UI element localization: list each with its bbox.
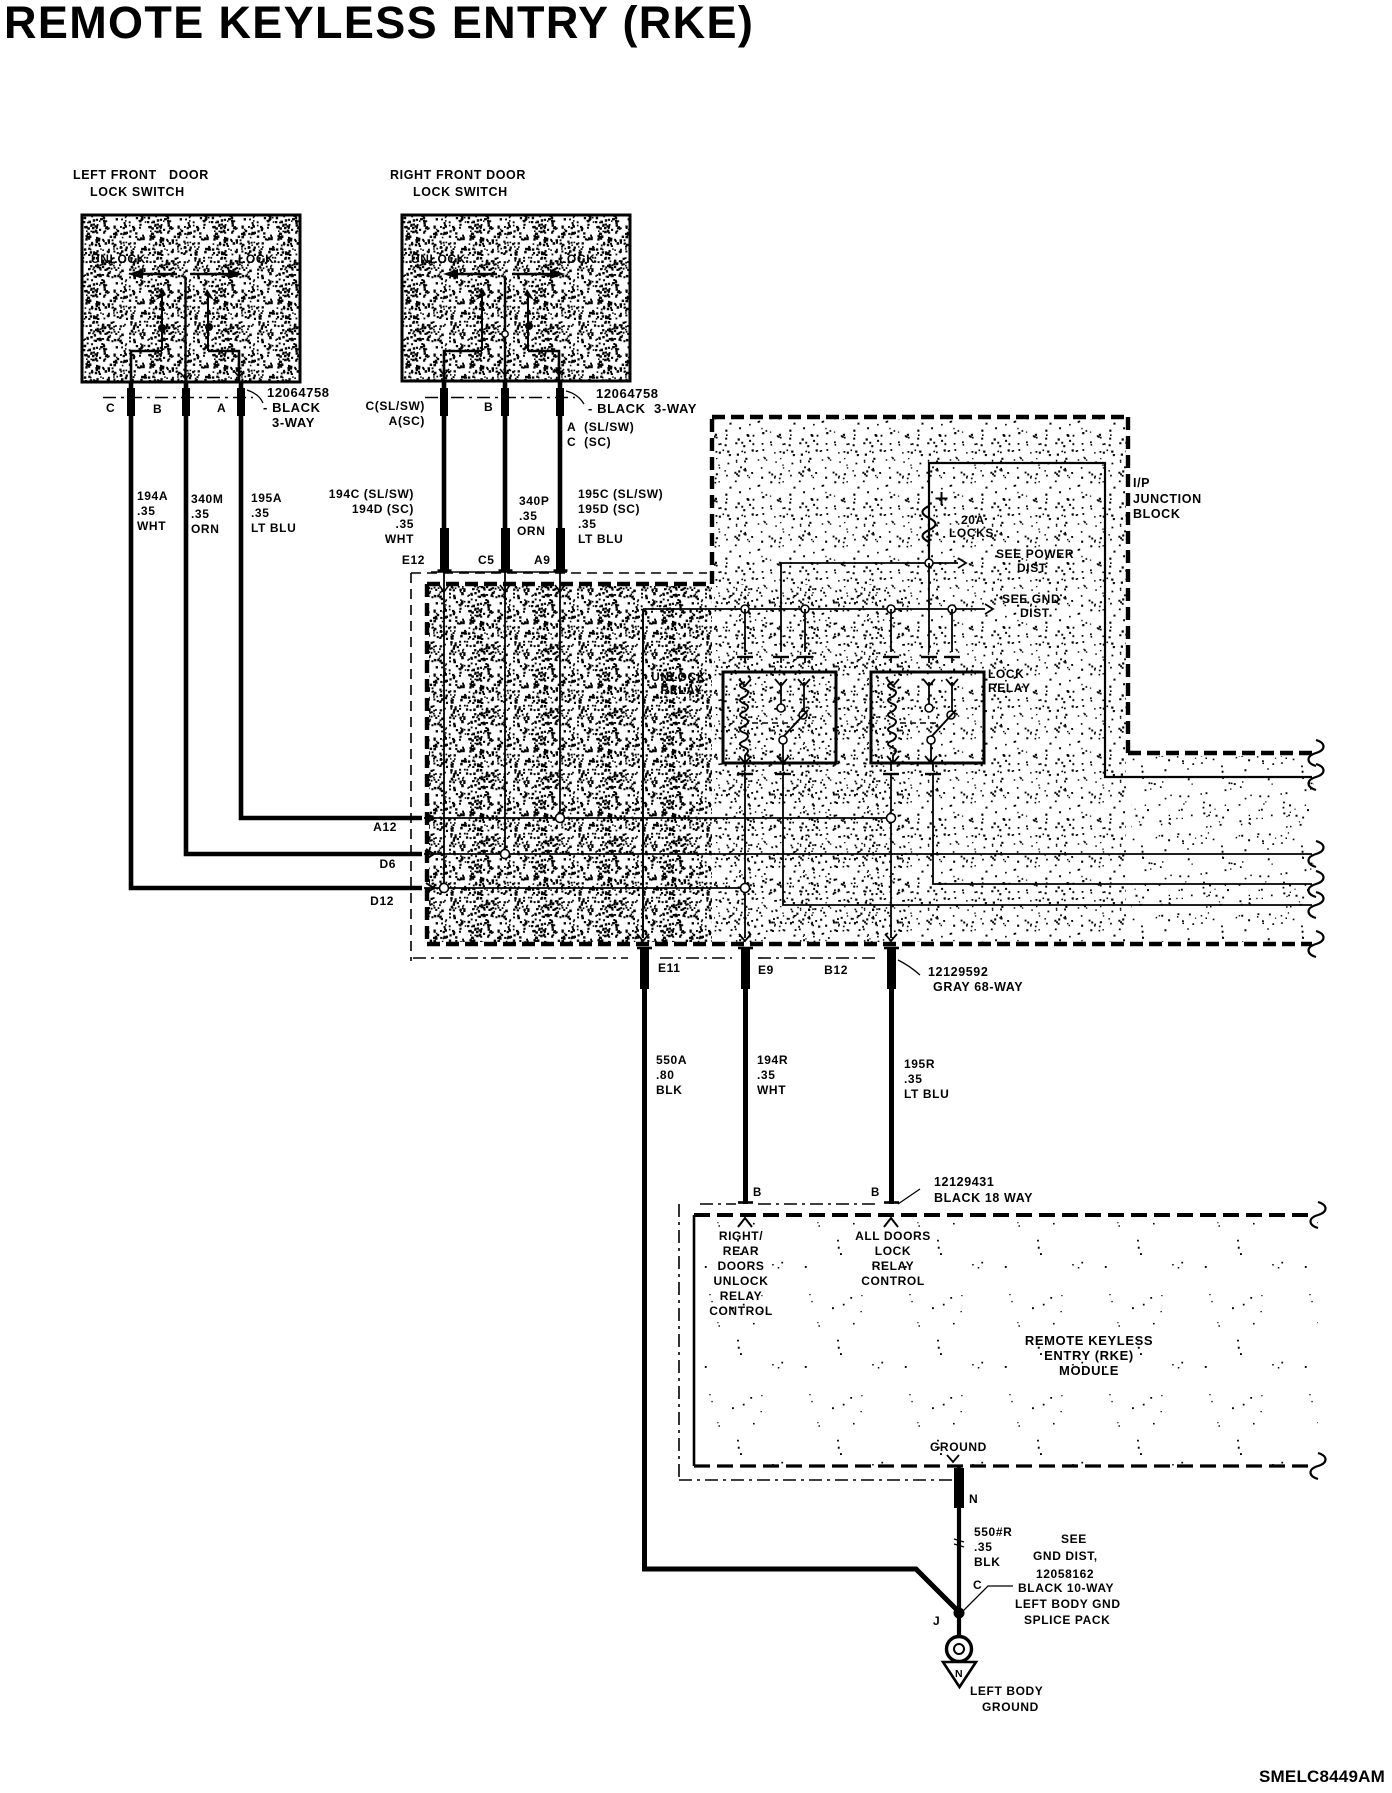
svg-text:B: B xyxy=(753,1187,762,1199)
switch arm 2 (lock contact) xyxy=(204,289,214,300)
svg-text:B: B xyxy=(484,400,493,414)
svg-text:.35: .35 xyxy=(578,517,596,531)
svg-text:- BLACK: - BLACK xyxy=(263,400,321,415)
svg-text:12064758: 12064758 xyxy=(596,386,659,401)
svg-text:20A: 20A xyxy=(961,513,985,527)
svg-text:194D (SC): 194D (SC) xyxy=(352,502,414,516)
lock direction arrow xyxy=(512,273,551,275)
switch pole B wire xyxy=(504,277,506,381)
wire to A9 xyxy=(558,381,563,530)
connector 12064758 black 3-way (left) xyxy=(103,397,253,399)
wire 550A .80 BLK xyxy=(642,947,647,1569)
I/P junction block stipple fill (upper area) xyxy=(714,419,1126,942)
wire 195R .35 LT BLU xyxy=(889,947,894,1204)
svg-text:12129592: 12129592 xyxy=(928,965,988,979)
svg-text:.35: .35 xyxy=(396,517,414,531)
svg-text:D6: D6 xyxy=(379,857,396,871)
svg-text:.35: .35 xyxy=(757,1068,775,1082)
svg-text:.35: .35 xyxy=(974,1540,992,1554)
svg-text:.35: .35 xyxy=(137,504,155,518)
lock relay K2 xyxy=(871,672,984,763)
splice junction J xyxy=(954,1608,965,1619)
svg-text:A(SC): A(SC) xyxy=(389,414,425,428)
I/P junction block outer boundary (thin dashed) xyxy=(411,572,707,574)
svg-text:E11: E11 xyxy=(658,961,681,975)
svg-text:LT BLU: LT BLU xyxy=(578,532,623,546)
svg-text:195R: 195R xyxy=(904,1057,935,1071)
svg-text:B12: B12 xyxy=(824,963,848,977)
svg-text:LT BLU: LT BLU xyxy=(904,1087,949,1101)
junction block connector face line (dash-dot bottom) xyxy=(413,957,628,959)
svg-text:BLK: BLK xyxy=(974,1555,1000,1569)
svg-text:DIST: DIST xyxy=(1017,561,1047,575)
ground wire 550#R .35 BLK xyxy=(957,1466,961,1613)
svg-text:ORN: ORN xyxy=(517,524,545,538)
net D6 internal line xyxy=(424,853,1312,855)
svg-text:ENTRY (RKE): ENTRY (RKE) xyxy=(1044,1348,1134,1363)
svg-text:UNLOCK: UNLOCK xyxy=(651,670,706,684)
wire C to D12 xyxy=(131,382,422,888)
svg-text:LOCK SWITCH: LOCK SWITCH xyxy=(90,185,185,199)
switch pole B wire xyxy=(184,277,186,382)
svg-text:MODULE: MODULE xyxy=(1059,1363,1119,1378)
svg-text:SMELC8449AM: SMELC8449AM xyxy=(1259,1767,1385,1786)
svg-text:CONTROL: CONTROL xyxy=(861,1274,925,1288)
svg-text:3-WAY: 3-WAY xyxy=(272,415,315,430)
svg-text:LOCK: LOCK xyxy=(559,252,595,266)
svg-text:LOCK SWITCH: LOCK SWITCH xyxy=(413,185,508,199)
I/P junction block heavy dashed outline xyxy=(427,582,712,586)
svg-text:E9: E9 xyxy=(758,963,774,977)
switch SW1 left front door lock switch box xyxy=(82,215,300,382)
svg-text:C: C xyxy=(106,401,115,415)
svg-text:UNLOCK: UNLOCK xyxy=(714,1274,769,1288)
switch arm 1 (unlock contact) xyxy=(156,289,166,300)
svg-text:E12: E12 xyxy=(402,553,425,567)
ground return line to E11 xyxy=(642,609,644,938)
ground line SEE GND DIST xyxy=(643,608,985,610)
svg-text:RELAY: RELAY xyxy=(660,683,703,697)
RKE module box xyxy=(693,1215,696,1466)
svg-text:BLOCK: BLOCK xyxy=(1133,507,1180,521)
unlock relay switch output line xyxy=(783,774,1312,905)
wire A to A12 xyxy=(241,382,422,818)
svg-text:GROUND: GROUND xyxy=(982,1700,1039,1714)
unlock direction arrow xyxy=(140,273,177,275)
power feed line SEE POWER DIST xyxy=(781,562,958,564)
node A9 wire xyxy=(559,570,561,814)
svg-text:CONTROL: CONTROL xyxy=(709,1304,773,1318)
svg-text:SEE GND: SEE GND xyxy=(1002,592,1060,606)
ring terminal / eyelet xyxy=(957,1613,961,1637)
net D12 internal line xyxy=(424,887,740,889)
svg-text:550A: 550A xyxy=(656,1053,687,1067)
wire 194R .35 WHT xyxy=(743,947,748,1204)
svg-text:LOCKS: LOCKS xyxy=(949,526,994,540)
svg-text:GROUND: GROUND xyxy=(930,1440,987,1454)
wire to C5 xyxy=(503,381,508,530)
svg-text:RELAY: RELAY xyxy=(988,681,1031,695)
svg-text:GRAY 68-WAY: GRAY 68-WAY xyxy=(933,980,1023,994)
wire to E12 xyxy=(442,381,447,530)
svg-text:ORN: ORN xyxy=(191,522,219,536)
svg-text:SPLICE PACK: SPLICE PACK xyxy=(1024,1613,1110,1627)
svg-text:DOORS: DOORS xyxy=(717,1259,764,1273)
svg-text:I/P: I/P xyxy=(1133,476,1150,490)
lock relay coil output to B12 xyxy=(890,774,892,938)
connector 12129431 black 16 way xyxy=(700,1203,736,1205)
svg-text:SEE POWER: SEE POWER xyxy=(996,547,1074,561)
svg-text:BLK: BLK xyxy=(656,1083,682,1097)
svg-text:- BLACK 3-WAY: - BLACK 3-WAY xyxy=(588,401,697,416)
svg-text:12129431: 12129431 xyxy=(934,1175,994,1189)
switch SW2 right front door lock switch box xyxy=(402,215,630,381)
svg-text:B: B xyxy=(153,402,162,416)
svg-text:12064758: 12064758 xyxy=(267,385,330,400)
svg-text:RELAY: RELAY xyxy=(720,1289,763,1303)
svg-text:LEFT BODY GND: LEFT BODY GND xyxy=(1015,1597,1121,1611)
RKE module stipple fill xyxy=(694,1215,1318,1466)
svg-text:.35: .35 xyxy=(519,509,537,523)
svg-text:WHT: WHT xyxy=(757,1083,786,1097)
svg-text:.35: .35 xyxy=(191,507,209,521)
svg-text:.35: .35 xyxy=(904,1072,922,1086)
net A12 internal line xyxy=(424,817,887,819)
svg-text:REMOTE KEYLESS: REMOTE KEYLESS xyxy=(1025,1333,1153,1348)
ground symbol left body ground xyxy=(943,1662,976,1687)
svg-text:REMOTE KEYLESS ENTRY (RKE): REMOTE KEYLESS ENTRY (RKE) xyxy=(4,0,754,48)
svg-text:N: N xyxy=(955,1668,963,1680)
svg-text:A (SL/SW): A (SL/SW) xyxy=(567,420,634,434)
svg-text:340M: 340M xyxy=(191,492,223,506)
svg-text:LOCK: LOCK xyxy=(988,667,1024,681)
svg-text:195D (SC): 195D (SC) xyxy=(578,502,640,516)
wire B to D6 xyxy=(186,382,422,854)
svg-text:A12: A12 xyxy=(373,820,397,834)
svg-text:195C (SL/SW): 195C (SL/SW) xyxy=(578,487,663,501)
svg-text:.80: .80 xyxy=(656,1068,674,1082)
unlock relay coil output to E9 xyxy=(737,773,753,775)
switch arm 1 (unlock contact) xyxy=(476,289,486,300)
svg-text:.35: .35 xyxy=(251,506,269,520)
svg-text:LOCK: LOCK xyxy=(875,1244,911,1258)
svg-text:GND DIST,: GND DIST, xyxy=(1033,1549,1098,1563)
wire 550A run to splice xyxy=(645,1567,960,1612)
svg-text:SEE: SEE xyxy=(1061,1532,1087,1546)
lock relay switch output line xyxy=(933,774,1312,884)
unlock direction arrow xyxy=(456,273,497,275)
svg-text:RELAY: RELAY xyxy=(872,1259,915,1273)
svg-text:N: N xyxy=(969,1492,978,1506)
junction block stipple fill (relay area densifier) xyxy=(714,584,910,942)
connector 12064758 black 3-way (right) xyxy=(425,397,575,399)
svg-text:DIST: DIST xyxy=(1020,606,1050,620)
svg-text:LEFT FRONT DOOR: LEFT FRONT DOOR xyxy=(73,168,209,182)
lock direction arrow xyxy=(190,273,230,275)
node E12 wire xyxy=(443,570,445,884)
relay feed stubs xyxy=(780,563,782,652)
svg-text:12058162: 12058162 xyxy=(1036,1567,1094,1581)
svg-text:340P: 340P xyxy=(519,494,549,508)
node C5 wire xyxy=(504,570,506,850)
svg-text:JUNCTION: JUNCTION xyxy=(1133,492,1202,506)
connector 12129592 gray 68-way xyxy=(640,947,649,989)
svg-text:D12: D12 xyxy=(370,894,394,908)
svg-text:J: J xyxy=(933,1614,940,1628)
svg-text:194C (SL/SW): 194C (SL/SW) xyxy=(329,487,414,501)
svg-text:C(SL/SW): C(SL/SW) xyxy=(366,399,425,413)
svg-text:C5: C5 xyxy=(478,553,495,567)
I/P junction block stipple fill (lower-right light area) xyxy=(1131,756,1314,942)
svg-text:C (SC): C (SC) xyxy=(567,435,611,449)
svg-text:WHT: WHT xyxy=(385,532,414,546)
svg-text:A9: A9 xyxy=(534,553,551,567)
svg-text:C: C xyxy=(973,1578,982,1592)
svg-text:UNLOCK: UNLOCK xyxy=(411,252,466,266)
svg-text:LEFT BODY: LEFT BODY xyxy=(970,1684,1043,1698)
svg-text:195A: 195A xyxy=(251,491,282,505)
svg-text:LOCK: LOCK xyxy=(238,252,274,266)
svg-text:A: A xyxy=(217,401,226,415)
svg-text:194R: 194R xyxy=(757,1053,788,1067)
svg-text:RIGHT/: RIGHT/ xyxy=(719,1229,763,1243)
svg-text:LT BLU: LT BLU xyxy=(251,521,296,535)
svg-text:BLACK 10-WAY: BLACK 10-WAY xyxy=(1018,1581,1114,1595)
RKE module outer dash-dot boundary xyxy=(678,1204,680,1480)
svg-text:194A: 194A xyxy=(137,489,168,503)
switch arm 2 (lock contact) xyxy=(524,289,534,300)
fuse F1 20A LOCKS xyxy=(936,492,948,505)
svg-text:BLACK 18 WAY: BLACK 18 WAY xyxy=(934,1191,1033,1205)
svg-text:RIGHT FRONT DOOR: RIGHT FRONT DOOR xyxy=(390,168,526,182)
svg-text:REAR: REAR xyxy=(723,1244,759,1258)
svg-text:UNLOCK: UNLOCK xyxy=(91,252,146,266)
svg-text:550#R: 550#R xyxy=(974,1525,1012,1539)
svg-text:B: B xyxy=(871,1187,880,1199)
svg-text:WHT: WHT xyxy=(137,519,166,533)
battery feed line xyxy=(929,463,1312,777)
svg-text:ALL DOORS: ALL DOORS xyxy=(855,1229,931,1243)
I/P junction block stipple fill (lower-left dense area) xyxy=(429,586,712,942)
